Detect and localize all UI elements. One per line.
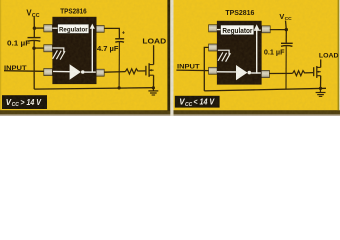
node junction dot on rail below C2	[118, 86, 121, 89]
wire internal supply arrow (white, up)	[91, 28, 93, 72]
wire pin8 to Vcc node	[270, 29, 287, 31]
wire pin1 to regulator (white, right panel)	[217, 29, 220, 31]
wire Q1 drain up to LOAD	[153, 45, 155, 64]
wire INPUT to pin 3 (right panel)	[176, 69, 209, 72]
pin 2 (left middle, right panel)	[209, 44, 218, 51]
pin 7 (right bottom)	[96, 69, 104, 76]
pin 3 (left bottom, right panel)	[209, 67, 218, 74]
wire A2 down to ground rail	[33, 48, 35, 89]
node junction dot (right panel Vcc)	[285, 28, 288, 31]
wire R1 to gate of Q1	[139, 70, 146, 72]
resistor R2 zigzag	[293, 71, 306, 76]
IC body rectangle (right)	[217, 21, 262, 85]
node junction dot rail/ground	[152, 86, 155, 89]
inverter bubble	[81, 70, 85, 74]
caption box VCC > 14 V	[2, 95, 47, 109]
left edge subtle darkening	[0, 0, 1, 116]
wire pin1 to regulator (white)	[52, 27, 57, 29]
node junction dot rail/ground (right panel)	[319, 87, 322, 90]
page background yellow	[0, 0, 340, 116]
transistor Q1 (NMOS)	[145, 66, 147, 76]
pin 1 (left top, right panel)	[209, 25, 218, 32]
grain overlay	[0, 0, 340, 116]
caption box VCC < 14 V	[175, 96, 220, 108]
wire Vcc stem down (right panel)	[285, 21, 288, 30]
capacitor C3 0.1 uF plates	[281, 42, 293, 44]
bottom dark shadow band	[0, 110, 340, 115]
wire driver output to pin 7 (white)	[85, 71, 96, 73]
driver U2b triangle	[236, 65, 247, 80]
wire ground rail (right panel)	[204, 88, 326, 91]
wire regulator to pin8 (white)	[254, 29, 261, 31]
wire Vcc stem down	[33, 17, 35, 29]
pin 1 (left top)	[44, 25, 53, 32]
wire C2 bottom down to rail	[118, 42, 120, 88]
pin 7 (right bottom, right panel)	[261, 70, 270, 77]
wire dot A1 to pin 1	[34, 27, 44, 29]
wire R2 to gate of Q2	[305, 72, 313, 74]
wire pin7 to resistor R1	[104, 71, 125, 74]
wire Q1 source down to rail	[153, 75, 155, 88]
pin 8 (right top)	[96, 26, 104, 33]
wire pin7 to resistor R2	[269, 72, 292, 74]
internal ground glyph (white)	[53, 48, 64, 53]
wire C3 bottom down to rail	[285, 46, 287, 89]
wire pin8 to C2 (4.7uF)	[104, 28, 119, 38]
driver U1b triangle	[70, 64, 81, 79]
pin 2 (left middle)	[44, 45, 53, 52]
wire pin2 to gnd line	[204, 47, 209, 91]
IC body rectangle	[52, 17, 96, 84]
inverter bubble (right panel)	[248, 71, 252, 75]
regulator block U2a	[220, 25, 254, 35]
pin 3 (left bottom)	[44, 69, 53, 76]
wire C1 bottom to junction A2	[33, 41, 35, 48]
right edge light sliver	[338, 0, 340, 110]
capacitor C2 4.7 uF plates	[115, 38, 124, 40]
node Vcc label (left panel)	[26, 9, 39, 19]
ground symbol (right panel)	[319, 88, 321, 92]
pin 8 (right top, right panel)	[262, 26, 271, 33]
wire dot A2 to pin 2	[34, 47, 44, 49]
wire Q2 source down to rail	[320, 76, 322, 89]
wire pin3 to driver input (white)	[53, 70, 70, 72]
wire ground rail (left panel)	[34, 88, 153, 89]
wire Vcc node down to C3	[285, 30, 287, 43]
internal ground glyph (white, right panel)	[218, 50, 229, 55]
capacitor C1 0.1 uF plates	[28, 37, 41, 39]
node Vcc label (right panel)	[279, 12, 292, 22]
node junction dot A2	[32, 47, 35, 50]
wire INPUT to pin 3	[4, 70, 44, 73]
ground symbol (left panel)	[152, 88, 154, 91]
wire internal supply arrow (white, up, right panel)	[256, 28, 258, 73]
regulator block U1a	[58, 24, 90, 34]
transistor Q2 (NMOS)	[313, 67, 315, 76]
right edge dark line	[338, 0, 340, 110]
wire dot A1 down to capacitor C1	[33, 28, 35, 37]
wire pin3 to driver input (white, right panel)	[217, 71, 236, 73]
gutter light strip	[170, 0, 173, 116]
bottom light strip	[0, 114, 340, 116]
node junction dot A1	[33, 27, 36, 30]
resistor R1 zigzag	[125, 69, 138, 74]
wire Q2 drain up to LOAD	[320, 59, 322, 67]
wire driver output to pin7 (white, right panel)	[251, 72, 261, 74]
gutter dark line between panels	[167, 0, 170, 111]
